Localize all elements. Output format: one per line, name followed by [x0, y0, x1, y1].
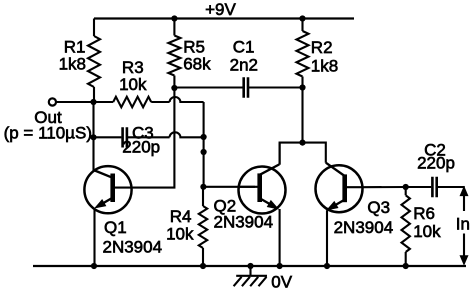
svg-text:10k: 10k — [119, 75, 147, 94]
svg-text:R2: R2 — [311, 38, 333, 57]
svg-text:68k: 68k — [183, 54, 211, 73]
node R2 bottom / C1 right junction — [299, 84, 305, 90]
svg-text:0V: 0V — [271, 272, 292, 291]
transistor Q2 2N3904 — [214, 143, 286, 266]
capacitor C2 — [406, 140, 465, 197]
resistor R4 — [166, 187, 207, 266]
node R5 bottom / C1 junction — [171, 85, 177, 91]
wire Q1 collector vertical — [92, 102, 94, 171]
wire top +9V rail — [94, 17, 354, 19]
svg-text:2n2: 2n2 — [230, 56, 258, 75]
svg-text:Q1: Q1 — [104, 218, 127, 237]
wire R2 to collector bus — [301, 88, 303, 143]
svg-text:2N3904: 2N3904 — [334, 218, 394, 237]
svg-text:10k: 10k — [413, 222, 441, 241]
capacitor C1 — [174, 38, 302, 98]
node R5 top junction — [171, 15, 177, 21]
wire R3/C3 node vertical to Q2 base — [203, 102, 205, 187]
svg-text:1k8: 1k8 — [311, 56, 338, 75]
node R2 top junction — [299, 15, 305, 21]
svg-text:1k8: 1k8 — [59, 54, 86, 73]
svg-text:220p: 220p — [417, 154, 455, 173]
wire bottom 0V rail — [33, 265, 466, 267]
svg-text:In: In — [456, 214, 470, 233]
svg-text:2N3904: 2N3904 — [214, 213, 274, 232]
node R6 bottom junction — [403, 263, 409, 269]
transistor Q3 2N3904 — [316, 163, 394, 266]
resistor R1 — [59, 19, 100, 103]
node In arrow — [456, 186, 470, 266]
node R6 top junction — [403, 184, 409, 190]
node Out terminal — [4, 98, 94, 142]
transistor Q1 2N3904 — [84, 166, 162, 266]
resistor R2 — [297, 19, 339, 88]
wire collector bus (Q2/Q3 collectors) — [280, 143, 326, 165]
wire Q1 collector node junction — [90, 99, 96, 105]
node Q3 emitter junction — [324, 263, 330, 269]
svg-text:C1: C1 — [233, 38, 255, 57]
node Q2 base / R4 junction — [200, 184, 206, 190]
capacitor C3 — [94, 124, 170, 157]
svg-text:R6: R6 — [413, 204, 435, 223]
resistor R3 — [94, 58, 170, 107]
node collector bus junction — [299, 140, 305, 146]
resistor R6 — [402, 187, 442, 266]
svg-text:2N3904: 2N3904 — [103, 237, 163, 256]
wire Q3 base to C2/R6 — [362, 186, 405, 188]
svg-text:R4: R4 — [170, 207, 192, 226]
node junction dot — [201, 149, 207, 155]
node R4 bottom junction — [200, 263, 206, 269]
node ground junction — [247, 263, 253, 269]
wire Q1 base vertical (R5/C1 node down to Q1 base) — [131, 88, 174, 188]
wire Q2 base — [203, 186, 255, 188]
node Q2 emitter junction — [277, 263, 283, 269]
node Q1 emitter junction — [91, 263, 97, 269]
node C3 left junction — [90, 134, 96, 140]
wire R3 hop over vertical — [170, 97, 204, 102]
resistor R5 — [168, 19, 211, 89]
svg-text:+9V: +9V — [205, 0, 236, 19]
svg-text:10k: 10k — [166, 225, 194, 244]
ground symbol 0V — [234, 266, 293, 291]
node C3 right junction — [201, 134, 207, 140]
svg-text:Q3: Q3 — [367, 198, 390, 217]
svg-text:220p: 220p — [122, 137, 160, 156]
svg-text:(p = 110µS): (p = 110µS) — [4, 124, 92, 143]
wire C3 hop over vertical — [170, 132, 204, 137]
